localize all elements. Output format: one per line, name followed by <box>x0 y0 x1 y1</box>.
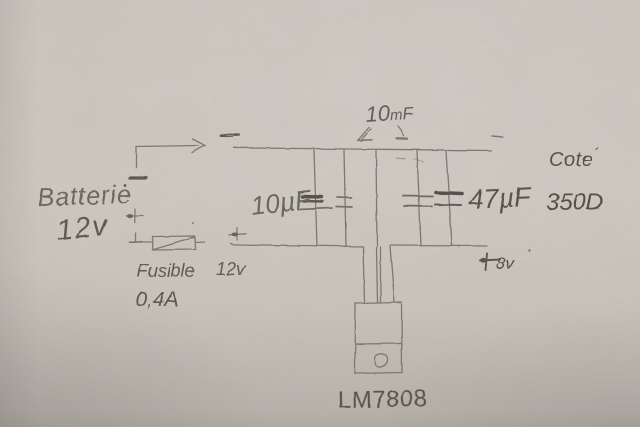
svg-text:350D: 350D <box>546 189 603 216</box>
svg-text:0,4A: 0,4A <box>135 288 178 311</box>
svg-text:8v: 8v <box>496 254 515 273</box>
svg-text:47µF: 47µF <box>468 182 533 215</box>
svg-text:Fusible: Fusible <box>137 261 195 281</box>
svg-text:LM7808: LM7808 <box>338 385 428 414</box>
svg-text:Cote´: Cote´ <box>549 146 599 171</box>
svg-text:12v: 12v <box>216 259 246 279</box>
svg-text:12v: 12v <box>55 210 111 247</box>
svg-text:Batterie: Batterie <box>37 181 132 212</box>
